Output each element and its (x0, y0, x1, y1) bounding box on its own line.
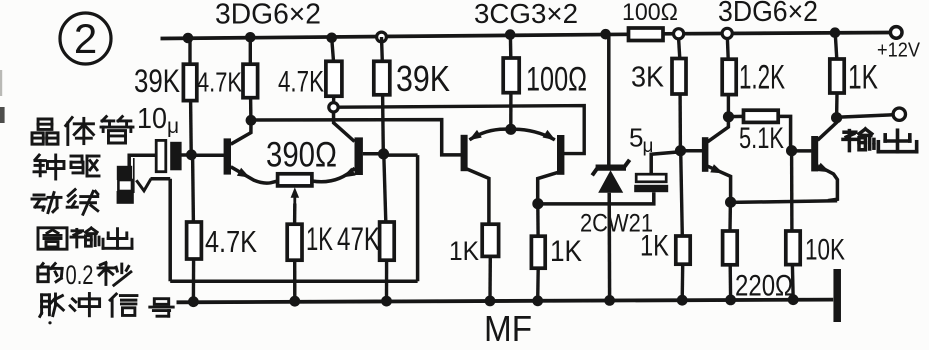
node gnd R9 (485, 296, 496, 307)
transistor Q4 emitter (511, 129, 556, 140)
resistor R10 lead bottom (536, 268, 540, 301)
potentiometer RP1 390Ω body (278, 174, 312, 186)
wire base node to Q5 (681, 149, 703, 153)
svg-text:100Ω: 100Ω (526, 61, 587, 99)
node rail-4.7K-a (245, 32, 256, 43)
node input base A (186, 149, 197, 160)
transistor Q6 emitter (817, 163, 838, 201)
transistor Q6 base bar (811, 136, 818, 171)
resistor R18 lead bottom (791, 265, 795, 300)
node gnd R6 (289, 296, 300, 307)
svg-text:1K: 1K (306, 221, 333, 257)
resistor R14 1.2K (722, 59, 736, 94)
label R10 1K (550, 235, 582, 268)
resistor R16 1K (830, 59, 844, 93)
wire C2 top plate to base node (651, 152, 680, 174)
resistor R5 4.7K (input bias) (187, 222, 202, 259)
svg-text:100Ω: 100Ω (622, 0, 678, 26)
wire loop top to base node (384, 153, 418, 157)
transistor Q1 base bar (224, 138, 231, 174)
transistor Q2 base wire (363, 152, 384, 156)
svg-text:3CG3×2: 3CG3×2 (474, 0, 578, 29)
resistor R3 4.7K (326, 61, 342, 96)
potentiometer RP1 wiper arrow (291, 187, 300, 203)
resistor R12 lead bottom (678, 94, 682, 151)
resistor R12 3K lead top (679, 39, 680, 59)
node gnd R18 (788, 294, 799, 305)
label 100ohm top (622, 0, 678, 26)
node rail-39K-b (ring) (377, 32, 387, 42)
svg-text:0.2: 0.2 (66, 260, 94, 290)
transistor Q5 emitter (708, 164, 731, 202)
wire Q6 collector to output terminal (837, 115, 893, 117)
resistor R10 1K (Q4 load) (531, 236, 545, 268)
svg-text:1K: 1K (640, 230, 669, 263)
label R3 4.7K (278, 66, 324, 99)
wire jack to coupling cap (129, 155, 156, 166)
svg-text:3DG6×2: 3DG6×2 (215, 0, 321, 31)
svg-text:39K: 39K (396, 58, 450, 99)
node gnd R13 (677, 295, 688, 306)
label R9 1K (449, 236, 479, 266)
label R17 220Ω (735, 270, 793, 303)
node rail-4.7K-b (326, 33, 337, 44)
node gnd R17 (725, 295, 736, 306)
transistor Q5 base bar (702, 137, 709, 172)
label R5 4.7K (205, 224, 257, 259)
node gnd R5 (188, 296, 199, 307)
wire Q5 emitter to Q6 emitter (731, 201, 838, 203)
svg-text:220Ω: 220Ω (735, 270, 793, 303)
resistor R7 lead bottom (385, 260, 389, 301)
resistor R8 100Ω lead top (509, 35, 513, 58)
transistor Q4 base bar (557, 135, 564, 175)
resistor R2 4.7K lead top (249, 37, 252, 64)
resistor R13 1K (Q5 base) (676, 236, 690, 264)
resistor R7 47K (380, 222, 395, 260)
wire ring junction to Q4 base (338, 106, 584, 154)
resistor R16 lead bottom (835, 93, 839, 118)
resistor R14 lead bottom (727, 95, 730, 117)
node Q5 base D (675, 145, 686, 156)
label 10u (137, 103, 179, 138)
wire top supply rail left section (161, 34, 629, 38)
svg-text:47K: 47K (337, 221, 380, 257)
svg-text:39K: 39K (134, 63, 180, 99)
label R1 39K (134, 63, 180, 99)
svg-text:1K: 1K (848, 59, 878, 97)
node R3-Q2collector (ring) (329, 103, 338, 112)
label R14 1.2K (739, 59, 785, 97)
resistor R4 lead bottom (381, 95, 385, 154)
resistor R6 lead bottom (293, 260, 296, 301)
node Q2 base B (378, 148, 389, 159)
node rail-100ohm-vert (505, 29, 516, 40)
node Q1 collector (246, 115, 257, 126)
wire Q4 collector to coupling cap (538, 192, 654, 204)
transistor Q2 emitter (312, 168, 356, 182)
label R7 47K (337, 221, 380, 257)
contact V mark at jack (136, 179, 151, 191)
label R2 4.7K (197, 67, 242, 98)
svg-text:4.7K: 4.7K (278, 66, 324, 99)
svg-text:1K: 1K (550, 235, 582, 268)
transistor Q4 collector (538, 173, 558, 204)
svg-text:4.7K: 4.7K (205, 224, 257, 259)
label MF (484, 308, 532, 349)
node rail-39K (183, 33, 194, 44)
node Q6 collector (831, 112, 842, 123)
label R6 1K (306, 221, 333, 257)
resistor R12 3K (672, 59, 686, 95)
resistor R18 10K (786, 231, 800, 265)
resistor R11 100Ω (series in rail) (629, 28, 664, 41)
resistor R10 1K lead top (536, 204, 540, 237)
resistor R17 220Ω (723, 231, 738, 265)
capacitor C2 5μ (634, 174, 668, 192)
node Q6 base E (786, 145, 797, 156)
resistor R13 lead bottom (681, 264, 685, 300)
transistor Q1 emitter (231, 167, 278, 183)
resistor R9 1K (Q3 load) (482, 224, 498, 256)
label R12 3K (631, 62, 665, 94)
node rail-1.2K (ring) (722, 28, 732, 38)
wire input node to Q1 base (191, 153, 224, 157)
label D1 2CW21 (580, 210, 653, 238)
ground symbol (833, 269, 841, 322)
node gnd D1 (604, 295, 615, 306)
transistor Q5 collector (708, 117, 729, 142)
svg-text:5.1K: 5.1K (739, 122, 784, 155)
transistor Q3 base bar (461, 135, 468, 171)
label output 输出 (843, 129, 917, 152)
svg-text:10K: 10K (805, 234, 845, 267)
svg-text:4.7K: 4.7K (197, 67, 242, 98)
resistor R9 lead bottom (488, 256, 492, 301)
svg-text:5: 5 (629, 123, 643, 153)
label 3DG6x2 first stage (215, 0, 321, 31)
resistor R6 1K lead top (293, 204, 297, 225)
resistor R4 39K lead top (380, 37, 384, 61)
label 3DG6x2 output stage (718, 0, 818, 28)
svg-text:3DG6×2: 3DG6×2 (718, 0, 818, 28)
svg-text:390Ω: 390Ω (266, 136, 337, 175)
svg-text:1.2K: 1.2K (739, 59, 785, 97)
node gnd R7 (381, 296, 392, 307)
diode D1 2CW21 zener cathode bar (592, 160, 629, 176)
svg-text:10: 10 (137, 103, 167, 135)
wire top supply rail right section (663, 33, 891, 34)
resistor R2 lead bottom (249, 98, 253, 121)
node Q5 collector (723, 111, 734, 122)
resistor R17 lead bottom (729, 265, 733, 300)
wire zener anode to ground (607, 193, 611, 301)
resistor R15 5.1K (feedback) (729, 110, 791, 150)
wire Q6 base (792, 149, 812, 153)
terminal output (893, 108, 905, 120)
node rail-1K-out (830, 27, 841, 38)
node Q3Q4 emitters (505, 124, 516, 135)
label R4 39K (396, 58, 450, 99)
capacitor C1 10u electrolytic (156, 140, 181, 171)
svg-text:1K: 1K (449, 236, 479, 266)
label C2 5μ (629, 123, 653, 158)
wire cap to input node (180, 153, 192, 157)
wire loop bottom horizontal (170, 280, 417, 284)
terminal +12V (877, 27, 920, 62)
node rail-zener (600, 29, 611, 40)
resistor R4 39K (374, 61, 390, 95)
transistor Q2 base bar (355, 137, 363, 175)
svg-text:3K: 3K (631, 62, 665, 94)
resistor R17 220Ω lead top (728, 202, 732, 231)
transistor Q2 collector (334, 112, 355, 142)
svg-text:MF: MF (484, 308, 532, 349)
wire V mark to loop corner (151, 177, 171, 181)
resistor R1 39K lead top (188, 38, 191, 64)
label R16 1K (848, 59, 878, 97)
svg-text:2: 2 (74, 15, 97, 62)
node Q5 emitter (725, 197, 736, 208)
resistor R6 1K (287, 224, 302, 260)
resistor R3 lead bottom (332, 96, 336, 102)
wire Q1 collector to Q3 base (251, 120, 461, 155)
resistor R8 lead bottom (509, 93, 513, 130)
wire loop left vertical (168, 179, 172, 281)
node rail-3K (ring) (674, 29, 684, 39)
resistor R1 39K lead bottom (189, 101, 193, 153)
transistor Q1 collector (231, 120, 251, 144)
wire ground rail (177, 300, 834, 303)
caption input signal description (32, 117, 173, 317)
resistor R1 39K (183, 64, 196, 100)
resistor R7 47K lead top (384, 154, 386, 222)
resistor R3 4.7K lead top (332, 38, 334, 62)
resistor R5 4.7K lead top (191, 156, 195, 222)
resistor R14 1.2K lead top (726, 39, 730, 60)
node gnd R10 (532, 295, 543, 306)
transistor Q3 collector (467, 169, 489, 224)
resistor R16 1K lead top (835, 33, 837, 59)
diode D1 zener triangle (598, 170, 623, 193)
resistor R18 10K lead top (790, 151, 794, 231)
transistor Q6 collector (818, 118, 837, 141)
label R18 10K (805, 234, 845, 267)
label RP1 390Ω (266, 136, 337, 175)
label 3CG3x2 second stage (474, 0, 578, 29)
resistor R2 4.7K (243, 64, 258, 98)
resistor R8 100Ω (503, 58, 519, 93)
resistor R13 1K lead top (681, 151, 683, 236)
transistor Q3 emitter (469, 129, 511, 140)
svg-text:+12V: +12V (877, 39, 920, 62)
wire loop right vertical (416, 155, 420, 281)
node Q4 collector C (532, 198, 543, 209)
svg-text:μ: μ (167, 115, 179, 138)
figure number badge (2) (60, 13, 111, 64)
label R8 100Ω (526, 61, 587, 99)
label R15 5.1K (739, 122, 784, 155)
scan speck (0, 70, 52, 324)
wire rail to zener (607, 34, 611, 166)
input jack plug symbol (117, 158, 134, 204)
resistor R5 lead bottom (192, 259, 196, 302)
label R13 1K (640, 230, 669, 263)
